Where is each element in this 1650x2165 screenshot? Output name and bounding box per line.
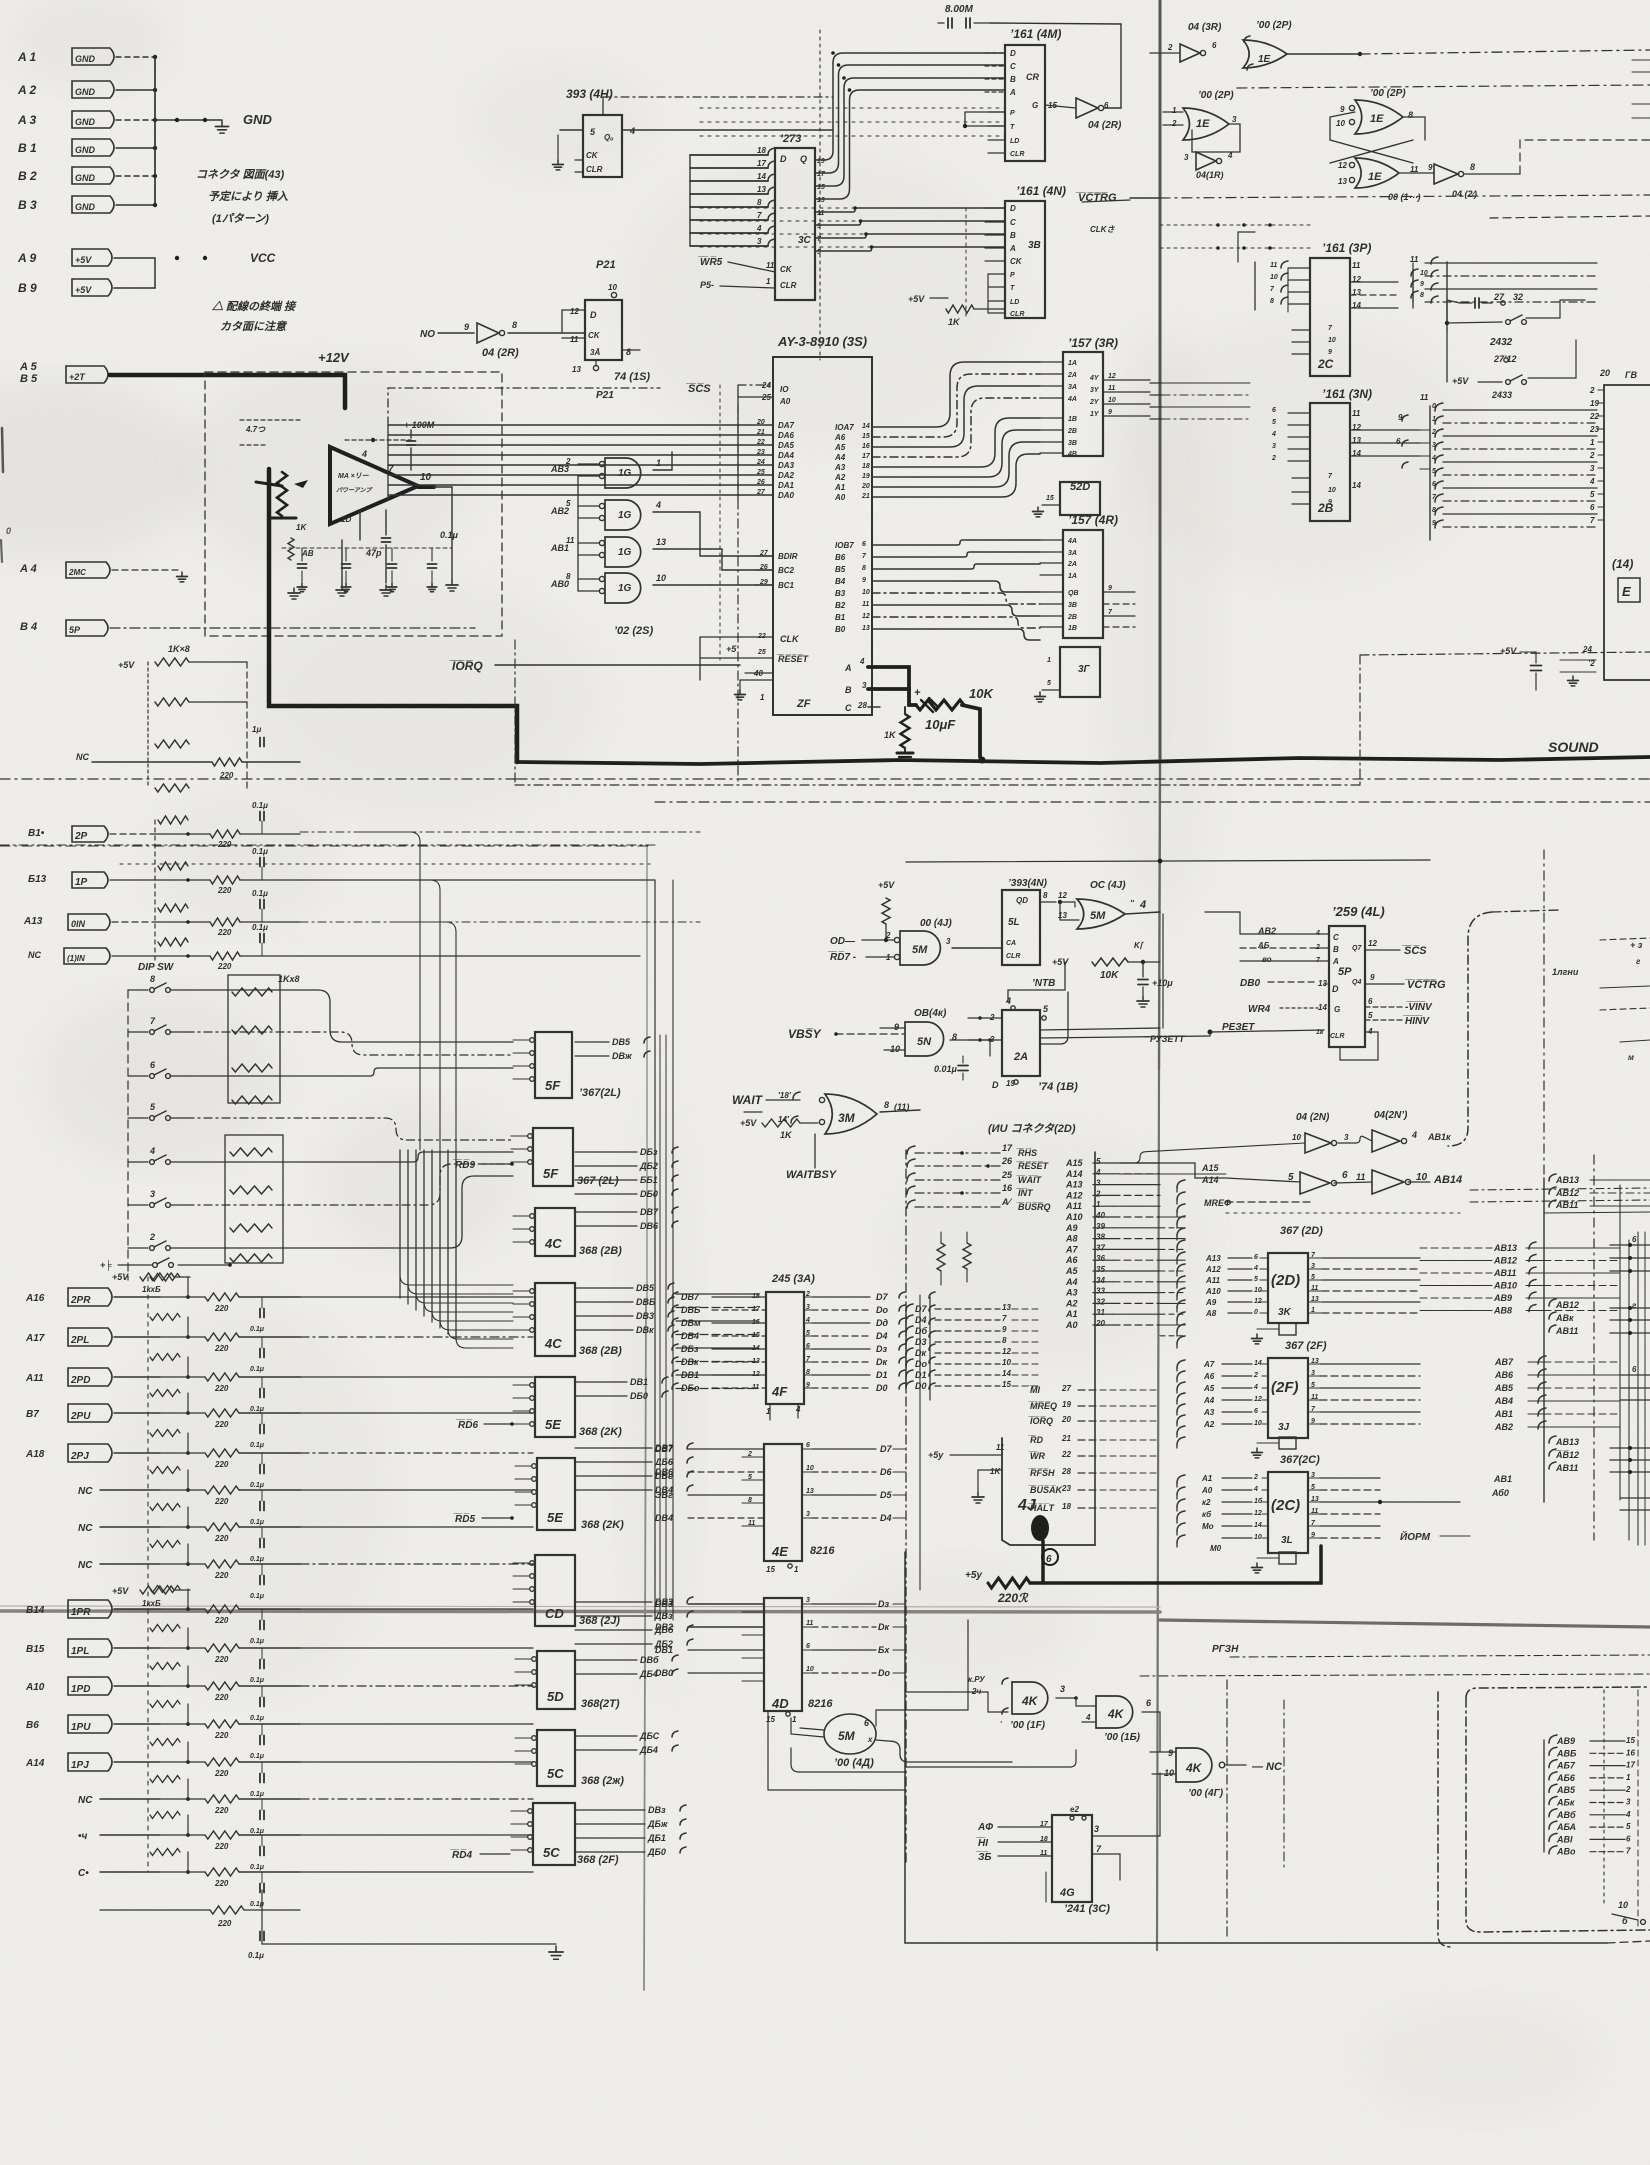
svg-text:BDIR: BDIR (778, 552, 798, 561)
svg-text:1μ: 1μ (252, 725, 261, 734)
svg-text:’241 (3C): ’241 (3C) (1064, 1903, 1110, 1915)
svg-text:11: 11 (1420, 393, 1429, 402)
svg-text:B1•: B1• (28, 828, 45, 839)
svg-text:C: C (1333, 933, 1339, 942)
svg-text:16: 16 (1002, 1183, 1013, 1193)
svg-text:14: 14 (1352, 301, 1361, 310)
svg-text:D4: D4 (880, 1513, 892, 1523)
svg-text:P: P (1010, 272, 1015, 279)
svg-text:P: P (1010, 110, 1015, 117)
svg-text:CLR: CLR (1006, 953, 1020, 960)
svg-text:11: 11 (752, 1384, 759, 1391)
svg-text:2: 2 (1589, 451, 1595, 460)
svg-text:(2D): (2D) (1271, 1272, 1300, 1289)
svg-text:2: 2 (1271, 455, 1276, 462)
svg-text:G: G (1032, 101, 1038, 110)
svg-text:8: 8 (1432, 507, 1436, 514)
svg-text:3B: 3B (1028, 240, 1041, 251)
svg-text:4: 4 (1315, 930, 1320, 937)
svg-text:D: D (992, 1080, 999, 1090)
svg-text:DA1: DA1 (778, 481, 795, 490)
svg-text:18: 18 (1062, 1502, 1071, 1511)
svg-text:OD—: OD— (830, 936, 856, 947)
svg-text:+: + (914, 687, 921, 699)
svg-text:4: 4 (629, 126, 635, 136)
svg-text:21: 21 (756, 429, 765, 436)
svg-text:15: 15 (1002, 1380, 1011, 1389)
svg-text:14: 14 (1002, 1369, 1011, 1378)
svg-text:•ч: •ч (78, 1831, 88, 1842)
svg-text:AB11: AB11 (1555, 1200, 1578, 1210)
svg-text:3K: 3K (1278, 1307, 1292, 1318)
svg-text:NC: NC (78, 1523, 93, 1534)
svg-text:0.1μ: 0.1μ (250, 1519, 265, 1526)
svg-text:ДБж: ДБж (647, 1819, 668, 1829)
svg-text:2: 2 (1625, 1785, 1631, 1794)
svg-text:9: 9 (464, 322, 469, 332)
svg-text:10: 10 (656, 573, 666, 583)
svg-text:9: 9 (1420, 281, 1424, 288)
svg-text:2PR: 2PR (70, 1295, 91, 1306)
svg-text:4: 4 (1253, 1265, 1258, 1272)
svg-text:̅R̅F̅S̅H: ̅R̅F̅S̅H (1028, 1468, 1055, 1478)
svg-text:2: 2 (747, 1451, 752, 1458)
svg-text:4: 4 (1005, 996, 1011, 1006)
svg-text:23: 23 (756, 449, 765, 456)
svg-text:1лгни: 1лгни (1552, 967, 1579, 977)
svg-text:0.1μ: 0.1μ (248, 1951, 264, 1960)
svg-text:3A: 3A (1068, 384, 1077, 391)
svg-text:NC: NC (76, 752, 89, 762)
svg-text:パワーアンプ: パワーアンプ (336, 486, 373, 494)
svg-text:A11: A11 (25, 1373, 44, 1384)
svg-text:1B: 1B (1068, 625, 1077, 632)
svg-text:368(2Т): 368(2Т) (581, 1698, 620, 1710)
gate 4K b (1096, 1696, 1133, 1728)
svg-text:20: 20 (861, 483, 870, 490)
273 input bundle (768, 148, 775, 155)
svg-text:17: 17 (817, 171, 826, 178)
svg-text:DIP SW: DIP SW (138, 962, 175, 973)
svg-text:4: 4 (1431, 455, 1436, 462)
svg-text:’00 (2P): ’00 (2P) (1256, 20, 1292, 31)
svg-text:+5V: +5V (1500, 646, 1517, 656)
svg-text:220: 220 (214, 1344, 229, 1353)
svg-text:DB1: DB1 (655, 1645, 673, 1655)
svg-text:12: 12 (752, 1371, 760, 1378)
svg-text:3: 3 (806, 1511, 810, 1518)
svg-text:2: 2 (1253, 1474, 1258, 1481)
svg-text:1: 1 (792, 1715, 797, 1724)
svg-text:15: 15 (817, 184, 825, 191)
svg-text:1: 1 (1172, 106, 1177, 115)
wires from 5N/74 to 259 (1205, 912, 1240, 934)
svg-text:0: 0 (1254, 1309, 1258, 1316)
svg-text:2A: 2A (1067, 372, 1077, 379)
svg-text:GND: GND (75, 173, 96, 183)
svg-text:+2T: +2T (69, 372, 86, 382)
svg-text:4: 4 (655, 500, 661, 510)
svg-text:0.1μ: 0.1μ (250, 1326, 265, 1333)
svg-text:10: 10 (608, 283, 617, 292)
svg-text:13: 13 (1311, 1296, 1319, 1303)
inner bottom frame (1466, 1687, 1650, 1698)
svg-text:20: 20 (756, 419, 765, 426)
svg-text:368 (2J): 368 (2J) (579, 1615, 620, 1627)
svg-text:-̅V̅I̅N̅V: -̅V̅I̅N̅V (1405, 1001, 1433, 1013)
svg-text:BC1: BC1 (778, 581, 795, 590)
svg-text:16: 16 (1626, 1748, 1635, 1757)
svg-text:1K: 1K (990, 1467, 1001, 1476)
VCTRG wire right (1082, 200, 1130, 202)
svg-text:B6: B6 (835, 553, 846, 562)
svg-text:220: 220 (214, 1693, 229, 1702)
svg-text:A4: A4 (1203, 1396, 1215, 1405)
svg-text:A: A (1332, 957, 1339, 966)
svg-text:9: 9 (1328, 349, 1332, 356)
157 outputs across crease (1150, 382, 1162, 384)
svg-text:6: 6 (1626, 1834, 1631, 1843)
svg-text:х: х (867, 1735, 873, 1744)
svg-text:ДБ6: ДБ6 (654, 1457, 674, 1467)
svg-text:1: 1 (1626, 1773, 1631, 1782)
svg-text:1G: 1G (618, 510, 632, 521)
svg-text:̅B̅U̅S̅R̅Q: ̅B̅U̅S̅R̅Q (1016, 1202, 1051, 1212)
DA bus long lines left (387, 424, 389, 426)
svg-text:Dд: Dд (876, 1318, 888, 1328)
svg-text:AБк: AБк (1556, 1798, 1575, 1808)
svg-text:04(1R): 04(1R) (1196, 170, 1224, 180)
svg-text:DB7: DB7 (640, 1207, 659, 1217)
svg-text:Dо: Dо (915, 1359, 927, 1369)
svg-text:DBБ: DBБ (636, 1297, 656, 1307)
frame wires near 4D (791, 1748, 905, 1772)
svg-text:DA6: DA6 (778, 431, 795, 440)
svg-text:220: 220 (214, 1806, 229, 1815)
svg-text:18: 18 (862, 463, 870, 470)
svg-text:5N: 5N (917, 1036, 932, 1048)
svg-text:0: 0 (1432, 403, 1436, 410)
svg-text:10: 10 (1328, 487, 1336, 494)
svg-text:13: 13 (1311, 1496, 1319, 1503)
svg-text:’02 (2S): ’02 (2S) (614, 625, 653, 637)
svg-text:14: 14 (1254, 1360, 1262, 1367)
svg-text:̅W̅R̅5: ̅W̅R̅5 (698, 256, 723, 268)
svg-text:2PU: 2PU (70, 1411, 91, 1422)
svg-text:АBБ: АBБ (1556, 1748, 1577, 1758)
svg-text:1A: 1A (1068, 360, 1077, 367)
svg-text:A5: A5 (1065, 1266, 1078, 1276)
svg-text:A5: A5 (1203, 1384, 1215, 1393)
svg-text:12: 12 (1352, 423, 1361, 432)
svg-text:DA7: DA7 (778, 421, 795, 430)
svg-text:5L: 5L (1008, 917, 1020, 928)
svg-text:3M: 3M (838, 1111, 856, 1125)
svg-text:13: 13 (572, 365, 581, 374)
svg-text:6: 6 (806, 1442, 810, 1449)
svg-text:̅V̅C̅T̅R̅G: ̅V̅C̅T̅R̅G (1404, 979, 1446, 991)
svg-text:̅R̅D: ̅R̅D (1028, 1435, 1043, 1445)
svg-text:2: 2 (1167, 43, 1173, 52)
svg-text:1Y: 1Y (1090, 411, 1100, 418)
svg-text:04 (2⁄): 04 (2⁄) (1452, 189, 1477, 199)
svg-text:245 (3А): 245 (3А) (771, 1273, 815, 1285)
svg-text:0.1μ: 0.1μ (250, 1593, 265, 1600)
svg-text:9: 9 (1002, 1325, 1007, 1334)
svg-text:25: 25 (757, 649, 766, 656)
svg-text:AB13: AB13 (1555, 1437, 1579, 1447)
svg-text:5: 5 (1311, 1274, 1315, 1281)
svg-text:IOB7: IOB7 (835, 541, 854, 550)
svg-text:220: 220 (217, 928, 232, 937)
svg-text:8: 8 (1470, 162, 1475, 172)
svg-text:̅V̅C̅T̅R̅G: ̅V̅C̅T̅R̅G (1075, 192, 1117, 204)
svg-text:GND: GND (75, 54, 96, 64)
thick +12V wire (110, 375, 345, 408)
svg-text:8: 8 (1408, 110, 1413, 120)
svg-text:11: 11 (1311, 1285, 1318, 1292)
svg-text:(14): (14) (1612, 557, 1633, 571)
svg-text:10: 10 (806, 1465, 814, 1472)
svg-text:コネクタ 図面(43): コネクタ 図面(43) (196, 168, 285, 181)
svg-text:B 3: B 3 (18, 198, 37, 212)
svg-text:B 5: B 5 (20, 373, 38, 385)
svg-text:6: 6 (1432, 481, 1436, 488)
svg-text:A14: A14 (25, 1758, 45, 1769)
svg-text:0.1μ: 0.1μ (252, 847, 268, 856)
svg-text:368 (2K): 368 (2K) (581, 1519, 624, 1531)
svg-text:1: 1 (766, 277, 771, 286)
svg-text:1PR: 1PR (71, 1607, 91, 1618)
svg-text:̅R̅E̅S̅E̅T: ̅R̅E̅S̅E̅T (1016, 1161, 1050, 1171)
svg-text:̅I̅N̅T: ̅I̅N̅T (1016, 1188, 1034, 1198)
svg-text:GND: GND (75, 117, 96, 127)
svg-text:CLK: CLK (780, 634, 800, 644)
svg-text:220: 220 (214, 1571, 229, 1580)
svg-text:WAITBSY: WAITBSY (786, 1169, 838, 1181)
svg-text:P5-: P5- (700, 280, 714, 290)
svg-text:8: 8 (748, 1497, 752, 1504)
svg-text:10: 10 (1328, 337, 1336, 344)
svg-text:3: 3 (1311, 1472, 1315, 1479)
svg-text:26: 26 (756, 479, 765, 486)
vertical bundle into 4C2/5E (400, 1150, 513, 1285)
svg-text:3Ā: 3Ā (590, 348, 600, 357)
svg-text:04 (3R): 04 (3R) (1188, 22, 1222, 33)
svg-text:35: 35 (1096, 1265, 1105, 1274)
svg-text:0.1μ: 0.1μ (250, 1482, 265, 1489)
svg-text:CR: CR (1026, 72, 1039, 82)
svg-text:5: 5 (1096, 1157, 1101, 1166)
svg-text:36: 36 (1096, 1254, 1105, 1263)
svg-text:A 1: A 1 (17, 50, 37, 64)
svg-text:(ИU コネクタ(2D): (ИU コネクタ(2D) (988, 1122, 1076, 1135)
svg-text:37: 37 (1096, 1243, 1105, 1252)
svg-text:CK: CK (586, 151, 599, 160)
svg-text:1PJ: 1PJ (71, 1760, 89, 1771)
svg-text:A11: A11 (1065, 1201, 1082, 1211)
svg-text:34: 34 (1096, 1276, 1105, 1285)
svg-text:DB1: DB1 (630, 1377, 648, 1387)
svg-text:4C: 4C (544, 1336, 562, 1351)
svg-text:VBS̅Y: VBS̅Y (788, 1027, 822, 1041)
svg-text:11: 11 (1410, 255, 1419, 264)
svg-text:5F: 5F (543, 1166, 559, 1181)
svg-text:+5V: +5V (908, 294, 925, 304)
svg-text:1G: 1G (618, 547, 632, 558)
IOB routing bundle (872, 540, 1040, 545)
svg-text:3Γ: 3Γ (1078, 664, 1091, 675)
svg-text:̅I̅O̅R̅Q: ̅I̅O̅R̅Q (1028, 1416, 1053, 1426)
svg-text:WR4: WR4 (1248, 1004, 1271, 1015)
svg-text:DA0: DA0 (778, 491, 795, 500)
svg-text:̅H̅I̅N̅V: ̅H̅I̅N̅V (1403, 1015, 1430, 1027)
svg-text:11: 11 (996, 1443, 1005, 1452)
svg-text:3: 3 (1094, 1824, 1099, 1834)
svg-text:G: G (1334, 1005, 1340, 1014)
svg-text:ЙОРМ: ЙОРМ (1400, 1530, 1431, 1543)
svg-text:5C: 5C (547, 1766, 564, 1781)
svg-text:A 3: A 3 (17, 113, 37, 127)
svg-text:5M: 5M (912, 944, 928, 956)
svg-text:4: 4 (149, 1146, 155, 1156)
svg-text:GND: GND (75, 145, 96, 155)
svg-text:367 (2L): 367 (2L) (577, 1175, 619, 1187)
svg-text:CLR: CLR (1330, 1033, 1344, 1040)
CPU data pins D7..D0 (906, 1304, 913, 1311)
svg-text:15: 15 (752, 1332, 760, 1339)
svg-text:Dз: Dз (876, 1344, 887, 1354)
svg-text:10: 10 (1270, 274, 1278, 281)
svg-text:2B: 2B (1067, 614, 1077, 621)
svg-text:1B: 1B (1068, 416, 1077, 423)
svg-text:Мо: Мо (1202, 1522, 1214, 1531)
svg-text:10: 10 (1292, 1133, 1301, 1142)
svg-text:М0: М0 (1210, 1544, 1222, 1553)
AB13..11 upper-right rows (1549, 1174, 1556, 1181)
svg-text:9: 9 (1311, 1418, 1315, 1425)
svg-text:AB12: AB12 (1493, 1256, 1517, 1266)
svg-text:CA: CA (1006, 940, 1016, 947)
ground symbol GND (155, 119, 222, 121)
svg-text:2432: 2432 (1489, 337, 1513, 348)
svg-text:B7: B7 (26, 1409, 39, 1420)
svg-text:A0: A0 (1065, 1320, 1078, 1330)
svg-text:6: 6 (1590, 503, 1595, 512)
svg-text:+5V: +5V (75, 285, 92, 295)
svg-text:4B: 4B (1067, 451, 1077, 458)
svg-text:AB12: AB12 (1555, 1188, 1579, 1198)
svg-text:04(2N’): 04(2N’) (1374, 1110, 1408, 1121)
svg-text:2PD: 2PD (70, 1375, 90, 1386)
svg-text:0.1μ: 0.1μ (252, 889, 268, 898)
svg-text:1E: 1E (1370, 113, 1384, 125)
svg-text:Аб0: Аб0 (1491, 1488, 1509, 1498)
svg-text:12: 12 (1368, 939, 1377, 948)
svg-text:P21: P21 (596, 390, 614, 401)
wires from gates to frame (988, 1692, 1008, 1712)
svg-text:13: 13 (1352, 288, 1361, 297)
svg-text:220: 220 (217, 1919, 232, 1928)
DA bus pins (738, 424, 773, 426)
svg-text:8: 8 (1270, 298, 1274, 305)
svg-text:2433: 2433 (1491, 390, 1512, 400)
svg-text:11: 11 (1352, 261, 1361, 270)
right verticals (1543, 1178, 1545, 1502)
svg-text:ABо: ABо (1556, 1847, 1576, 1857)
svg-text:11: 11 (1311, 1508, 1318, 1515)
svg-text:A10: A10 (1065, 1212, 1083, 1222)
svg-text:3A: 3A (1068, 550, 1077, 557)
AB9..AB0 bottom right bundle (1543, 1740, 1545, 1852)
svg-text:カタ面に注意: カタ面に注意 (220, 320, 288, 333)
svg-text:10K: 10K (1100, 970, 1119, 981)
svg-text:A11: A11 (1205, 1276, 1221, 1285)
svg-text:13: 13 (656, 537, 666, 547)
svg-text:10: 10 (1254, 1420, 1262, 1427)
svg-text:AB9: AB9 (1493, 1293, 1512, 1303)
svg-text:25: 25 (756, 469, 765, 476)
svg-text:5: 5 (748, 1474, 752, 1481)
svg-text:B6: B6 (26, 1720, 39, 1731)
svg-text:3: 3 (806, 1304, 810, 1311)
svg-text:к.РУ: к.РУ (968, 1675, 985, 1684)
svg-text:14: 14 (1318, 1003, 1327, 1012)
svg-text:5: 5 (566, 499, 571, 508)
IC 5C 368 (2F) (533, 1803, 575, 1865)
svg-text:4A: 4A (1067, 538, 1077, 545)
svg-text:CLKさ: CLKさ (1090, 225, 1115, 234)
svg-text:̅R̅D̅5: ̅R̅D̅5 (453, 1513, 475, 1525)
svg-text:14: 14 (757, 172, 766, 181)
svg-text:3Y: 3Y (1090, 387, 1100, 394)
svg-text:15: 15 (1626, 1736, 1635, 1745)
svg-text:△ 配線の終端 接: △ 配線の終端 接 (211, 300, 297, 313)
svg-text:11: 11 (1356, 1172, 1365, 1182)
svg-text:220: 220 (214, 1534, 229, 1543)
svg-text:2: 2 (885, 931, 891, 940)
svg-text:10: 10 (1164, 1768, 1174, 1778)
svg-text:̅S̅C̅S: ̅S̅C̅S (685, 383, 711, 395)
svg-text:AB8: AB8 (1493, 1306, 1512, 1316)
svg-text:DB7: DB7 (655, 1444, 674, 1454)
svg-text:0.1μ: 0.1μ (250, 1791, 265, 1798)
svg-text:A7: A7 (1065, 1244, 1078, 1254)
svg-text:11: 11 (748, 1520, 755, 1527)
svg-text:220ℛ: 220ℛ (997, 1591, 1029, 1605)
svg-text:OB(4к): OB(4к) (914, 1008, 947, 1019)
svg-text:AB5: AB5 (1556, 1785, 1576, 1795)
svg-text:4: 4 (1411, 1130, 1417, 1140)
long dash row under MREQ (1226, 1212, 1460, 1214)
gate 1E a (1243, 40, 1287, 68)
svg-text:19: 19 (862, 473, 870, 480)
svg-text:Dз: Dз (878, 1599, 889, 1609)
svg-text:GND: GND (75, 87, 96, 97)
right edge stubs top (1632, 59, 1650, 61)
svg-text:5D: 5D (547, 1689, 564, 1704)
svg-text:A12: A12 (1065, 1190, 1083, 1200)
svg-text:’161 (3N): ’161 (3N) (1322, 387, 1372, 401)
lines 4E/4D D out to bus (893, 1448, 906, 1450)
svg-text:+5V: +5V (1452, 376, 1469, 386)
svg-text:1P: 1P (75, 877, 88, 888)
svg-text:1кхБ: 1кхБ (142, 1285, 161, 1294)
svg-text:2: 2 (1171, 119, 1177, 128)
svg-text:NC: NC (78, 1560, 93, 1571)
svg-text:AФ: AФ (977, 1822, 993, 1833)
long horizontals joining боксы (399, 1297, 401, 1299)
